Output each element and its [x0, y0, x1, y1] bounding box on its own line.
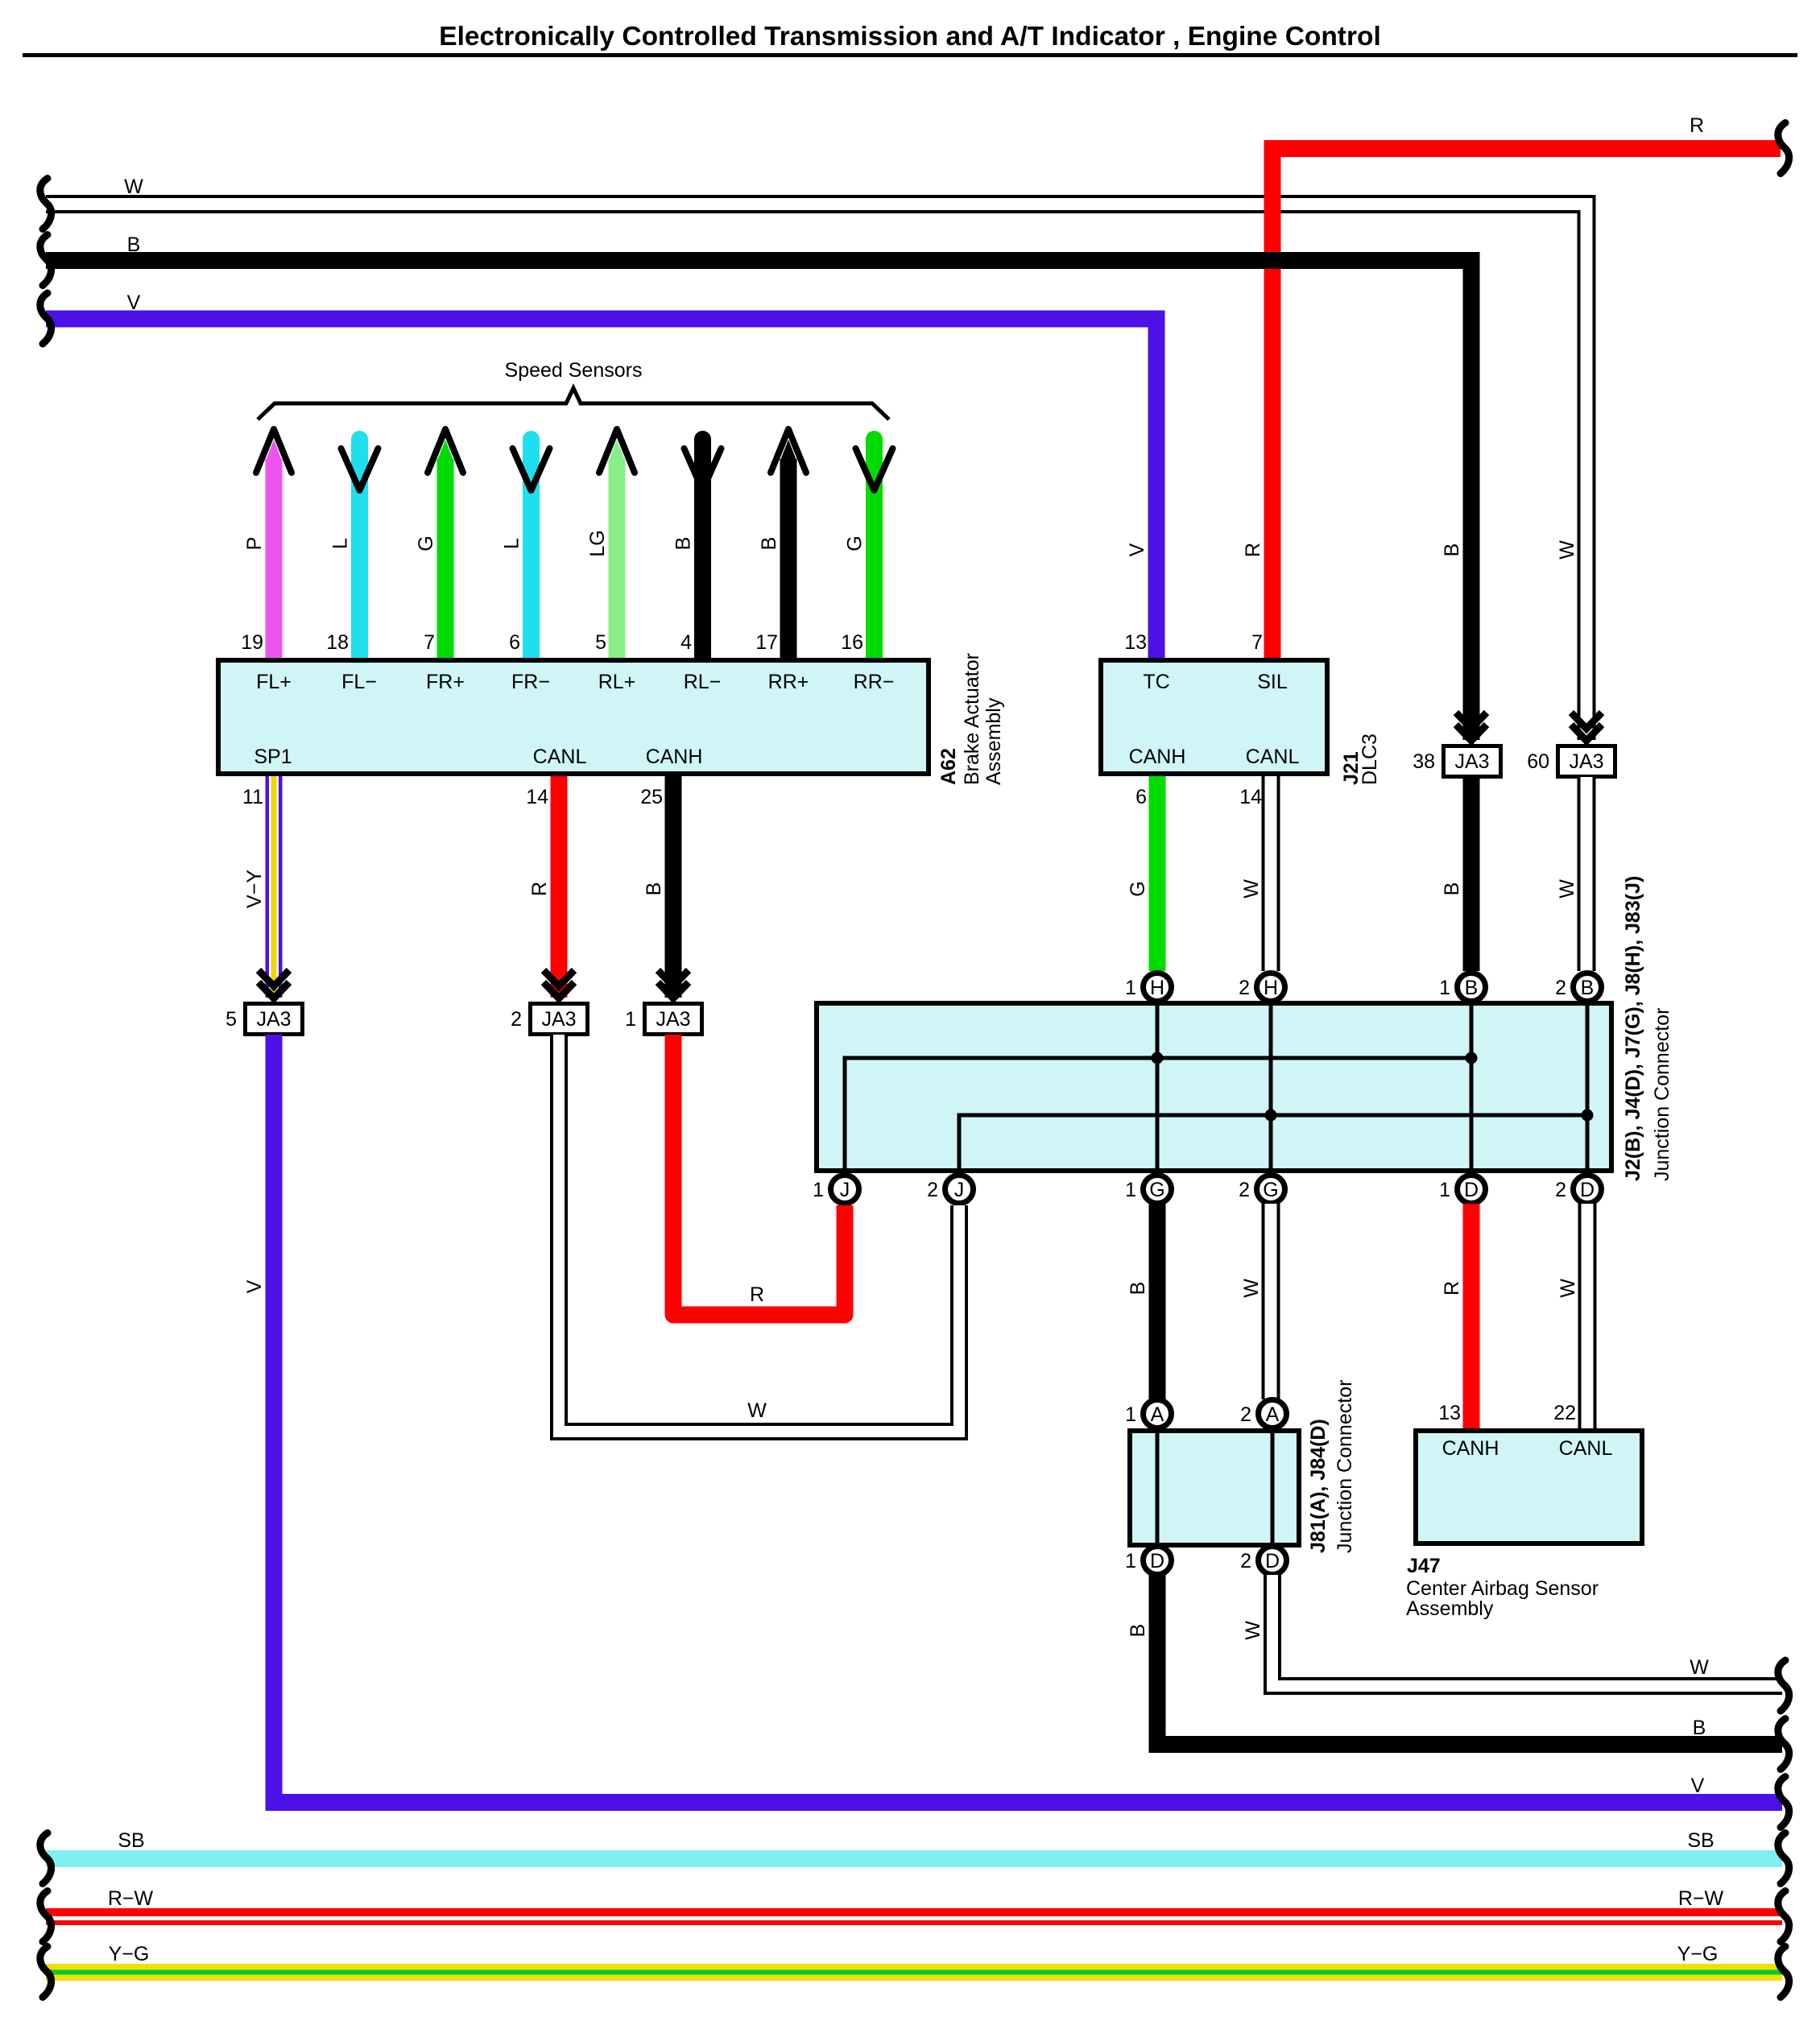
- svg-text:RR+: RR+: [768, 671, 809, 693]
- svg-text:7: 7: [424, 631, 435, 654]
- speed sensor wire RL+ LG (up arrow): [599, 429, 635, 658]
- wire SB bottom: [46, 1850, 1782, 1867]
- svg-text:Y−G: Y−G: [1677, 1943, 1719, 1965]
- svg-text:18: 18: [326, 631, 349, 654]
- J47 Center Airbag Sensor Assembly box: [1416, 1431, 1642, 1543]
- svg-text:16: 16: [841, 631, 863, 654]
- svg-text:J81(A), J84(D): J81(A), J84(D): [1307, 1419, 1330, 1553]
- wire R from D1 to J47 CANH: [1463, 1204, 1480, 1428]
- break squiggle V right: [1778, 1777, 1789, 1828]
- title rule: [23, 53, 1797, 57]
- chevrons into 2 JA3: [544, 970, 574, 1003]
- junction inner path to J1: [845, 1058, 1471, 1171]
- svg-text:R: R: [1441, 1281, 1463, 1296]
- wire W from D2 to J47 CANL: [1578, 1204, 1597, 1428]
- junction inner vertical B2-D2: [1586, 1006, 1590, 1171]
- wire V-Y from SP1 to 5 JA3: [266, 776, 283, 998]
- junction inner vertical H2-G2: [1269, 1006, 1273, 1171]
- node J1: [813, 1176, 858, 1204]
- break squiggle SB right: [1778, 1833, 1789, 1884]
- svg-text:J2(B), J4(D), J7(G), J8(H), J8: J2(B), J4(D), J7(G), J8(H), J83(J): [1622, 876, 1644, 1181]
- svg-text:LG: LG: [586, 530, 609, 556]
- svg-text:W: W: [1556, 879, 1578, 899]
- sensor wire color labels: [243, 530, 867, 556]
- svg-text:2: 2: [927, 1179, 938, 1201]
- J81 inner vertical A1-D1: [1156, 1433, 1160, 1543]
- svg-text:FR+: FR+: [426, 671, 465, 693]
- svg-text:13: 13: [1124, 631, 1147, 654]
- break squiggle R-W left: [40, 1891, 52, 1942]
- svg-text:H: H: [1150, 977, 1164, 999]
- wire B from J81 D1 to bottom right break: [1157, 1575, 1782, 1745]
- svg-text:SB: SB: [118, 1829, 144, 1852]
- node D1 J81: [1125, 1547, 1171, 1575]
- svg-text:Brake Actuator: Brake Actuator: [961, 653, 983, 785]
- svg-text:W: W: [747, 1399, 767, 1422]
- A62 Brake Actuator Assembly box: [218, 660, 929, 774]
- svg-text:4: 4: [680, 631, 692, 654]
- svg-text:14: 14: [1239, 786, 1262, 808]
- node G1: [1125, 1176, 1171, 1204]
- svg-text:Speed Sensors: Speed Sensors: [505, 359, 643, 382]
- svg-text:Junction Connector: Junction Connector: [1334, 1380, 1356, 1553]
- svg-text:17: 17: [755, 631, 778, 654]
- svg-text:TC: TC: [1143, 671, 1169, 693]
- svg-text:B: B: [1441, 543, 1463, 557]
- svg-text:25: 25: [640, 786, 663, 808]
- svg-text:B: B: [1441, 882, 1463, 896]
- svg-text:J: J: [954, 1179, 965, 1201]
- svg-text:B: B: [1581, 977, 1595, 999]
- svg-text:1: 1: [1125, 1179, 1136, 1201]
- svg-text:J47: J47: [1407, 1555, 1441, 1577]
- svg-text:B: B: [1127, 1282, 1149, 1296]
- break squiggle W right: [1778, 1660, 1789, 1711]
- break squiggle Y-G left: [40, 1947, 52, 1998]
- node H1: [1125, 973, 1171, 1002]
- chevrons into 1 JA3: [658, 970, 689, 1003]
- svg-text:JA3: JA3: [656, 1008, 690, 1031]
- svg-text:W: W: [124, 176, 143, 198]
- svg-text:Assembly: Assembly: [1406, 1597, 1494, 1620]
- node A2: [1240, 1400, 1286, 1428]
- node D1: [1439, 1176, 1485, 1204]
- svg-text:R: R: [750, 1283, 764, 1306]
- svg-text:14: 14: [526, 786, 548, 808]
- wire B from 38 JA3 to B1: [1463, 777, 1480, 971]
- svg-text:D: D: [1150, 1550, 1164, 1572]
- junction connector box J2/J4/J7/J8/J83: [817, 1003, 1611, 1171]
- svg-text:V: V: [1126, 543, 1148, 556]
- svg-text:A: A: [1151, 1403, 1164, 1426]
- node D2 J81: [1240, 1547, 1286, 1575]
- A62 pin labels bottom row: [254, 746, 702, 768]
- svg-text:SIL: SIL: [1257, 671, 1288, 693]
- svg-text:Y−G: Y−G: [109, 1943, 150, 1965]
- node B1: [1439, 973, 1485, 1002]
- svg-text:B: B: [1465, 977, 1479, 999]
- J47 pin labels: [1442, 1437, 1613, 1460]
- svg-text:Junction Connector: Junction Connector: [1651, 1008, 1673, 1181]
- svg-text:R: R: [1690, 114, 1704, 137]
- svg-text:CANH: CANH: [646, 746, 703, 768]
- svg-text:V−Y: V−Y: [243, 870, 266, 908]
- svg-text:1: 1: [1125, 977, 1136, 999]
- svg-text:RR−: RR−: [854, 671, 895, 693]
- svg-text:D: D: [1580, 1179, 1595, 1201]
- svg-text:W: W: [1240, 879, 1263, 899]
- svg-text:6: 6: [509, 631, 520, 654]
- svg-text:RL−: RL−: [684, 671, 722, 693]
- J21 pin labels: [1129, 671, 1300, 768]
- svg-text:B: B: [672, 537, 695, 551]
- wire R-W bottom: [46, 1908, 1782, 1925]
- junction inner vertical B1-D1: [1470, 1006, 1474, 1171]
- wire Y-G bottom: [46, 1964, 1782, 1981]
- svg-text:1: 1: [1125, 1550, 1136, 1572]
- speed sensor wire FR+ G (up arrow): [428, 429, 463, 658]
- svg-text:R−W: R−W: [108, 1887, 154, 1910]
- break squiggle SB left: [40, 1833, 52, 1884]
- svg-text:G: G: [1149, 1179, 1164, 1201]
- svg-text:CANL: CANL: [533, 746, 587, 768]
- speed sensor wire RL- B (down arrow): [685, 431, 722, 658]
- wire B top (black, from left break, down at x1827 into 38 JA3): [46, 261, 1471, 741]
- svg-text:2: 2: [1239, 1179, 1250, 1201]
- connector 2 JA3: [511, 1004, 587, 1035]
- svg-text:1: 1: [1125, 1403, 1136, 1426]
- svg-text:22: 22: [1553, 1402, 1576, 1424]
- svg-text:W: W: [1240, 1279, 1263, 1298]
- svg-text:G: G: [844, 535, 867, 551]
- svg-text:W: W: [1557, 1279, 1579, 1298]
- break squiggle V left: [40, 293, 52, 344]
- svg-text:A: A: [1266, 1403, 1280, 1426]
- svg-text:V: V: [243, 1279, 266, 1293]
- break squiggle B left: [40, 235, 52, 286]
- svg-text:G: G: [1263, 1179, 1278, 1201]
- svg-text:A62: A62: [937, 748, 960, 785]
- speed sensor wire FR- L (down arrow): [513, 431, 550, 658]
- svg-text:P: P: [243, 537, 266, 551]
- junction inner vertical H1-G1: [1156, 1006, 1160, 1171]
- svg-text:W: W: [1556, 540, 1578, 560]
- svg-text:R−W: R−W: [1678, 1887, 1724, 1910]
- svg-text:L: L: [329, 538, 352, 549]
- svg-text:11: 11: [242, 786, 263, 808]
- svg-text:7: 7: [1251, 631, 1263, 654]
- svg-text:2: 2: [1239, 977, 1250, 999]
- svg-text:1: 1: [625, 1008, 636, 1031]
- svg-text:2: 2: [511, 1008, 522, 1031]
- node J2: [927, 1176, 973, 1204]
- speed sensor wire RR- G (down arrow): [856, 431, 893, 658]
- svg-text:B: B: [758, 537, 780, 551]
- chevrons into 60 JA3: [1571, 713, 1602, 746]
- svg-text:JA3: JA3: [1569, 750, 1603, 773]
- wire G from CANH DLC3 to H1: [1149, 776, 1166, 971]
- svg-text:FL−: FL−: [341, 671, 377, 693]
- svg-text:6: 6: [1135, 786, 1147, 808]
- chevrons into 5 JA3: [259, 970, 289, 1003]
- svg-text:CANL: CANL: [1559, 1437, 1613, 1460]
- connector 38 JA3: [1413, 746, 1500, 777]
- svg-text:B: B: [1693, 1717, 1706, 1739]
- svg-text:CANL: CANL: [1246, 746, 1300, 768]
- junction inner path to J2: [959, 1115, 1587, 1171]
- svg-text:J: J: [840, 1179, 850, 1201]
- break squiggle R right: [1778, 123, 1789, 174]
- svg-text:FR−: FR−: [511, 671, 550, 693]
- svg-text:1: 1: [1439, 977, 1450, 999]
- wire B from G1 to A1: [1149, 1204, 1166, 1399]
- chevrons into 38 JA3: [1456, 713, 1487, 746]
- svg-text:38: 38: [1413, 750, 1435, 773]
- junction dot H2 line: [1265, 1110, 1277, 1122]
- svg-text:D: D: [1265, 1550, 1280, 1572]
- wire R top (red, from SIL up and right to break): [1272, 149, 1781, 659]
- svg-text:5: 5: [225, 1008, 237, 1031]
- svg-text:CANH: CANH: [1442, 1437, 1499, 1460]
- speed sensor wire FL- L (down arrow): [341, 431, 378, 658]
- node D2: [1555, 1176, 1601, 1204]
- connector 5 JA3: [225, 1004, 302, 1035]
- wire B from CANH to 1 JA3: [665, 776, 682, 998]
- J21 DLC3 box: [1101, 660, 1327, 774]
- speed sensors brace: [258, 388, 889, 419]
- svg-text:L: L: [501, 538, 523, 549]
- svg-text:JA3: JA3: [541, 1008, 576, 1031]
- J81 J84 junction connector box: [1130, 1431, 1299, 1545]
- wire W from G2 to A2: [1262, 1204, 1280, 1399]
- junction dot B1 line: [1466, 1052, 1478, 1064]
- svg-text:5: 5: [595, 631, 606, 654]
- svg-text:JA3: JA3: [256, 1008, 291, 1031]
- node B2: [1555, 973, 1601, 1002]
- J81 inner vertical A2-D2: [1271, 1433, 1275, 1543]
- svg-text:B: B: [643, 882, 665, 896]
- wire R from CANL to 2 JA3: [551, 776, 568, 998]
- svg-text:JA3: JA3: [1454, 750, 1489, 773]
- speed sensor wire RR+ B (up arrow): [771, 429, 806, 658]
- svg-text:RL+: RL+: [598, 671, 636, 693]
- svg-text:G: G: [415, 535, 437, 551]
- svg-text:FL+: FL+: [256, 671, 292, 693]
- svg-text:Assembly: Assembly: [982, 697, 1005, 785]
- svg-text:1: 1: [813, 1179, 824, 1201]
- wire W top (white, from left break to down at x1970 into 60 JA3): [46, 205, 1586, 741]
- A62 pin labels top row: [256, 671, 894, 693]
- svg-text:Electronically Controlled Tran: Electronically Controlled Transmission a…: [439, 22, 1381, 52]
- svg-text:W: W: [1242, 1621, 1264, 1640]
- svg-text:H: H: [1264, 977, 1278, 999]
- svg-text:19: 19: [241, 631, 263, 654]
- svg-text:R: R: [528, 882, 551, 896]
- wire V top (violet, from left break, down at x1436 to TC): [46, 319, 1156, 658]
- svg-text:1: 1: [1439, 1179, 1450, 1201]
- break squiggle B right: [1778, 1719, 1789, 1770]
- wire V from 5 JA3 to bottom right break: [274, 1035, 1782, 1803]
- wire W from CANL DLC3 to H2: [1262, 776, 1280, 971]
- svg-text:SP1: SP1: [254, 746, 292, 768]
- svg-text:B: B: [1127, 1624, 1149, 1638]
- speed sensor wire FL+ P (up arrow): [256, 429, 292, 658]
- break squiggle Y-G right: [1778, 1947, 1789, 1998]
- svg-text:B: B: [127, 233, 141, 256]
- svg-text:DLC3: DLC3: [1359, 733, 1381, 785]
- svg-text:2: 2: [1240, 1550, 1251, 1572]
- svg-text:13: 13: [1438, 1402, 1461, 1424]
- break squiggle R-W right: [1778, 1891, 1789, 1942]
- junction dot H1 line: [1152, 1052, 1164, 1064]
- svg-text:CANH: CANH: [1129, 746, 1186, 768]
- wire W from 60 JA3 to B2: [1578, 777, 1596, 971]
- wire R from 1 JA3 to J1: [673, 1035, 845, 1315]
- node H2: [1239, 973, 1284, 1002]
- svg-text:2: 2: [1240, 1403, 1251, 1426]
- break squiggle W left: [40, 179, 52, 229]
- svg-text:2: 2: [1555, 1179, 1566, 1201]
- svg-text:60: 60: [1527, 750, 1549, 773]
- connector 60 JA3: [1527, 746, 1615, 777]
- node A1: [1125, 1400, 1171, 1428]
- junction dot B2 line: [1582, 1110, 1594, 1122]
- svg-text:Center Airbag Sensor: Center Airbag Sensor: [1406, 1577, 1599, 1600]
- svg-text:V: V: [1691, 1775, 1705, 1797]
- connector 1 JA3: [625, 1004, 701, 1035]
- svg-text:D: D: [1464, 1179, 1479, 1201]
- wire W from 2 JA3 to J2: [559, 1035, 959, 1432]
- node G2: [1239, 1176, 1284, 1204]
- wire W from J81 D2 to bottom right break: [1272, 1575, 1782, 1686]
- svg-text:V: V: [127, 291, 141, 314]
- svg-text:R: R: [1242, 543, 1264, 557]
- svg-text:W: W: [1690, 1656, 1709, 1679]
- svg-text:2: 2: [1555, 977, 1566, 999]
- svg-text:SB: SB: [1687, 1829, 1714, 1852]
- svg-text:G: G: [1127, 881, 1149, 896]
